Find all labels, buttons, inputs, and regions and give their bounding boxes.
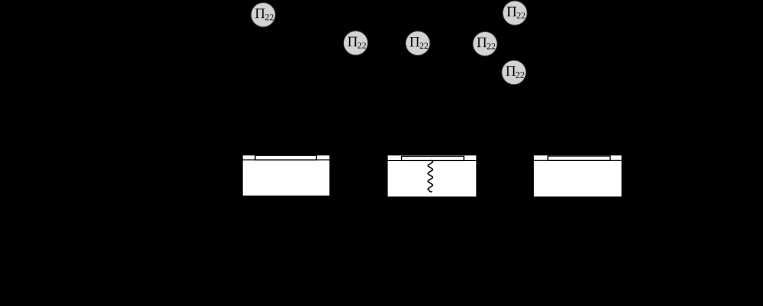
- film F2: [402, 156, 464, 160]
- substrate S3: [533, 155, 622, 197]
- interface line L1: [242, 159, 330, 161]
- crack: [428, 160, 433, 191]
- particle P4: [473, 32, 497, 56]
- particle P2: [344, 31, 368, 55]
- substrate S2: [387, 155, 477, 197]
- particle P5: [503, 1, 527, 25]
- interface line L3: [533, 159, 622, 161]
- particle P1: [251, 3, 275, 27]
- substrate S1: [242, 155, 330, 196]
- film F1: [255, 155, 316, 160]
- particle P3: [406, 31, 430, 55]
- film F3: [548, 156, 610, 160]
- interface line L2: [387, 159, 477, 161]
- particle P6: [502, 60, 526, 84]
